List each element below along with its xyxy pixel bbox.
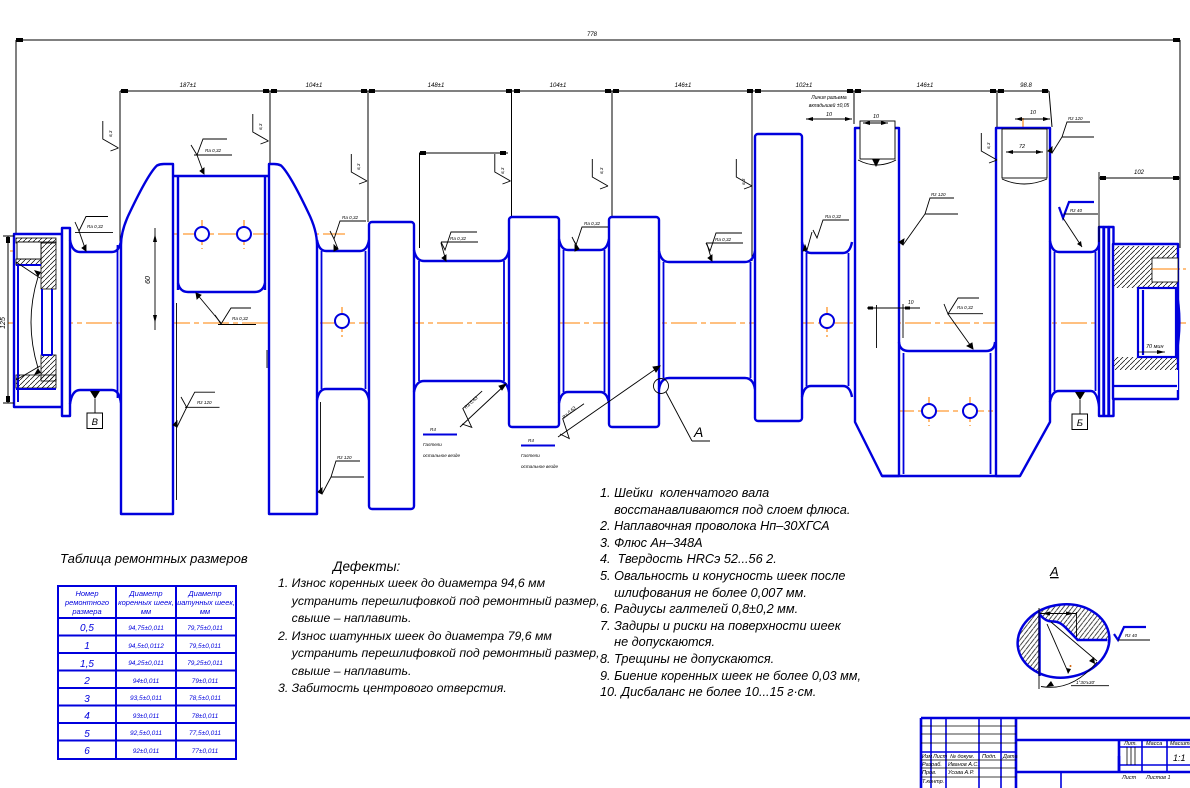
svg-text:Пров.: Пров. (922, 770, 937, 776)
svg-text:Лит.: Лит. (1123, 741, 1137, 747)
svg-text:Лист: Лист (932, 754, 948, 760)
svg-text:Изм: Изм (922, 754, 932, 760)
svg-text:Разраб.: Разраб. (922, 762, 942, 768)
svg-text:Лист: Лист (1121, 775, 1137, 781)
svg-text:Масса: Масса (1146, 741, 1162, 747)
svg-text:Усова А.Р.: Усова А.Р. (947, 770, 974, 776)
svg-text:№ докум.: № докум. (950, 754, 974, 760)
svg-text:Т.контр.: Т.контр. (922, 779, 944, 785)
svg-text:Листов 1: Листов 1 (1145, 775, 1171, 781)
svg-text:Иванов А.С.: Иванов А.С. (948, 762, 979, 768)
svg-text:1:1: 1:1 (1173, 753, 1186, 763)
svg-text:Масштаб: Масштаб (1170, 741, 1190, 747)
svg-text:Подп.: Подп. (982, 754, 997, 760)
svg-text:Дата: Дата (1002, 754, 1018, 760)
